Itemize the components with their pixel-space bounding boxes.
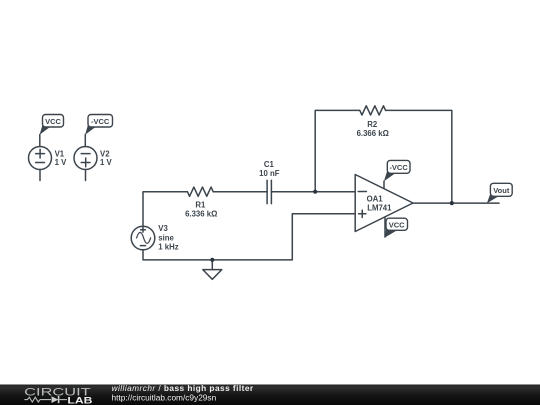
svg-text:1 kHz: 1 kHz — [158, 242, 178, 251]
svg-text:williamrchr / bass high pass f: williamrchr / bass high pass filter — [112, 383, 254, 393]
svg-text:LAB: LAB — [67, 396, 92, 405]
svg-text:LM741: LM741 — [367, 204, 392, 213]
svg-text:Vout: Vout — [493, 186, 510, 195]
svg-text:R1: R1 — [195, 201, 206, 210]
svg-text:sine: sine — [158, 233, 174, 242]
svg-text:R2: R2 — [367, 120, 378, 129]
svg-text:6.336 kΩ: 6.336 kΩ — [185, 210, 217, 219]
svg-text:-VCC: -VCC — [389, 163, 408, 172]
svg-text:OA1: OA1 — [367, 195, 384, 204]
svg-text:V3: V3 — [158, 224, 168, 233]
svg-text:1 V: 1 V — [100, 158, 113, 167]
svg-text:V1: V1 — [55, 149, 65, 158]
svg-text:-VCC: -VCC — [91, 117, 110, 126]
svg-text:10 nF: 10 nF — [259, 169, 280, 178]
svg-text:http://circuitlab.com/c9y29sn: http://circuitlab.com/c9y29sn — [112, 392, 217, 402]
svg-text:C1: C1 — [264, 160, 275, 169]
svg-text:VCC: VCC — [45, 117, 61, 126]
svg-text:6.366 kΩ: 6.366 kΩ — [357, 129, 389, 138]
svg-text:V2: V2 — [100, 149, 110, 158]
svg-text:VCC: VCC — [389, 221, 405, 230]
svg-text:1 V: 1 V — [55, 158, 68, 167]
